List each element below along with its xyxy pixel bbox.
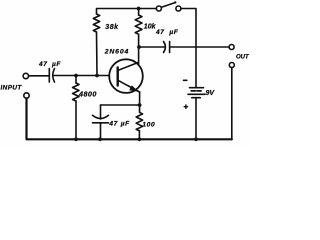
battery plus sign <box>184 105 187 108</box>
wire collector vertical <box>138 47 140 64</box>
junction base/4800 <box>74 74 78 78</box>
junction base/38k <box>95 74 99 78</box>
svg-text:47 µF: 47 µF <box>38 61 61 68</box>
wire 38k to base node <box>96 32 99 76</box>
INPUT terminal bottom <box>24 93 29 98</box>
resistor 100 <box>136 105 142 139</box>
junction rail/battery <box>194 137 198 141</box>
junction rail/4800 <box>74 137 78 141</box>
junction rail/C3 <box>98 137 102 141</box>
capacitor C2 47uF output <box>164 42 170 53</box>
svg-text:47 µF: 47 µF <box>155 29 179 36</box>
junction rail/100 <box>138 137 142 141</box>
battery B1 9V <box>188 88 205 98</box>
wire C1 to base node <box>54 75 109 77</box>
junction collector node <box>137 45 141 49</box>
wire battery bottom lead <box>195 98 197 140</box>
INPUT terminal top <box>23 73 28 78</box>
wire input to C1 <box>29 75 49 77</box>
OUT terminal bottom <box>229 63 234 68</box>
switch S1 <box>156 1 181 11</box>
wire switch to right corner <box>181 9 196 88</box>
svg-text:2N604: 2N604 <box>104 49 129 56</box>
wire emitter bypass horizontal <box>101 104 140 106</box>
resistor 38k <box>93 14 99 32</box>
svg-text:INPUT: INPUT <box>1 85 23 92</box>
svg-text:100: 100 <box>142 122 155 129</box>
svg-text:OUT: OUT <box>236 54 250 60</box>
capacitor C1 47uF input <box>49 69 54 83</box>
resistor 4800 <box>73 76 79 140</box>
capacitor C3 47uF bypass <box>93 105 109 139</box>
wire OUT bottom to rail <box>231 68 233 140</box>
wire input bottom to rail <box>27 98 232 139</box>
resistor 10k <box>135 9 142 48</box>
svg-text:4800: 4800 <box>78 90 97 99</box>
svg-text:38k: 38k <box>105 24 119 31</box>
svg-text:9V: 9V <box>206 90 216 97</box>
svg-text:10k: 10k <box>144 23 157 30</box>
wire C2 to OUT top <box>171 46 230 48</box>
junction emitter node <box>138 103 142 107</box>
OUT terminal top <box>229 45 234 50</box>
svg-text:47 µF: 47 µF <box>108 121 130 128</box>
battery minus sign <box>184 79 187 81</box>
wire collector to C2 <box>139 46 164 48</box>
transistor Q1 2N604 <box>109 59 143 93</box>
wire top rail left segment <box>97 9 157 15</box>
wire emitter vertical <box>139 92 141 105</box>
junction top of 10k <box>137 7 141 11</box>
